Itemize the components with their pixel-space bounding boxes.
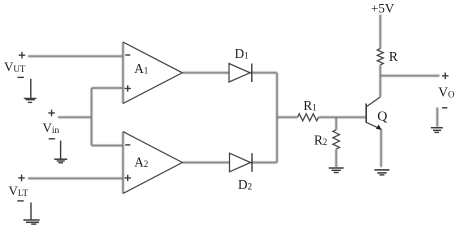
svg-text:Vin: Vin	[43, 120, 60, 136]
svg-text:A2: A2	[134, 154, 148, 169]
svg-text:VUT: VUT	[4, 59, 26, 74]
svg-text:VO: VO	[438, 85, 455, 100]
svg-text:VLT: VLT	[9, 183, 29, 198]
svg-text:D1: D1	[235, 46, 249, 61]
svg-text:Q: Q	[377, 110, 387, 125]
svg-text:R: R	[389, 49, 398, 64]
svg-text:D2: D2	[238, 177, 252, 192]
svg-text:R2: R2	[314, 132, 327, 147]
svg-text:A1: A1	[134, 61, 148, 76]
svg-text:+5V: +5V	[371, 1, 395, 16]
svg-text:R1: R1	[303, 98, 316, 113]
